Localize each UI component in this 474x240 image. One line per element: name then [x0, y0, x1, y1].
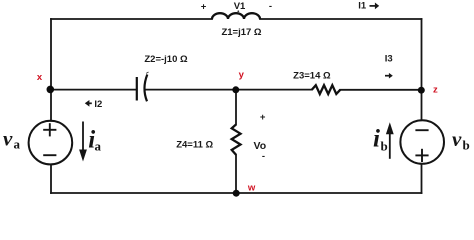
svg-text:I3: I3 [385, 54, 393, 65]
svg-text:Z1=j17 Ω: Z1=j17 Ω [221, 27, 261, 38]
svg-text:z: z [433, 85, 438, 96]
svg-text:a: a [14, 137, 21, 152]
svg-text:Z2=-j10 Ω: Z2=-j10 Ω [144, 54, 188, 65]
svg-text:+: + [260, 112, 266, 123]
svg-text:-: - [262, 151, 265, 162]
svg-text:I1: I1 [358, 1, 367, 12]
svg-text:Z4=11 Ω: Z4=11 Ω [176, 140, 213, 151]
svg-text:+: + [201, 2, 207, 13]
svg-text:a: a [95, 138, 102, 153]
svg-text:i: i [373, 126, 380, 153]
svg-text:b: b [463, 137, 470, 152]
svg-text:y: y [239, 70, 245, 81]
svg-text:w: w [247, 183, 256, 194]
svg-text:V1: V1 [234, 1, 246, 12]
svg-text:b: b [381, 139, 388, 154]
svg-text:v: v [452, 127, 462, 151]
svg-text:x: x [37, 72, 43, 83]
svg-text:Z3=14 Ω: Z3=14 Ω [293, 71, 331, 82]
svg-text:I2: I2 [94, 99, 102, 110]
svg-text:v: v [3, 126, 13, 150]
svg-text:-: - [269, 1, 272, 12]
